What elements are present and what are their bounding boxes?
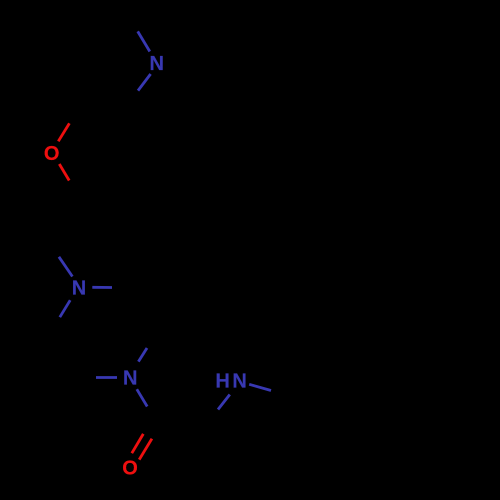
double bond C=O line 2	[139, 439, 152, 460]
bond HN right	[249, 384, 271, 390]
bond N2 left	[96, 376, 117, 379]
bond N-CH2 (top chain)	[138, 74, 151, 91]
double bond C=O line 1	[132, 434, 144, 453]
bond N1 right	[92, 286, 112, 289]
bond N-CH3 (top methyl)	[138, 31, 150, 51]
svg-text:N: N	[149, 53, 163, 75]
bond O-CH2 (lower)	[59, 164, 69, 181]
bond N1 down-left	[60, 300, 70, 317]
bond N2 up-right	[138, 348, 147, 362]
bond O-CH2 (upper)	[58, 123, 69, 141]
bond N1 up-left	[59, 257, 73, 277]
svg-text:N: N	[72, 278, 86, 300]
bond N2 down-right	[137, 389, 147, 406]
svg-text:O: O	[122, 458, 138, 480]
svg-text:H: H	[215, 371, 229, 393]
svg-text:O: O	[44, 143, 60, 165]
svg-text:N: N	[232, 371, 246, 393]
bond HN down-left	[218, 395, 230, 410]
svg-text:N: N	[123, 368, 137, 390]
